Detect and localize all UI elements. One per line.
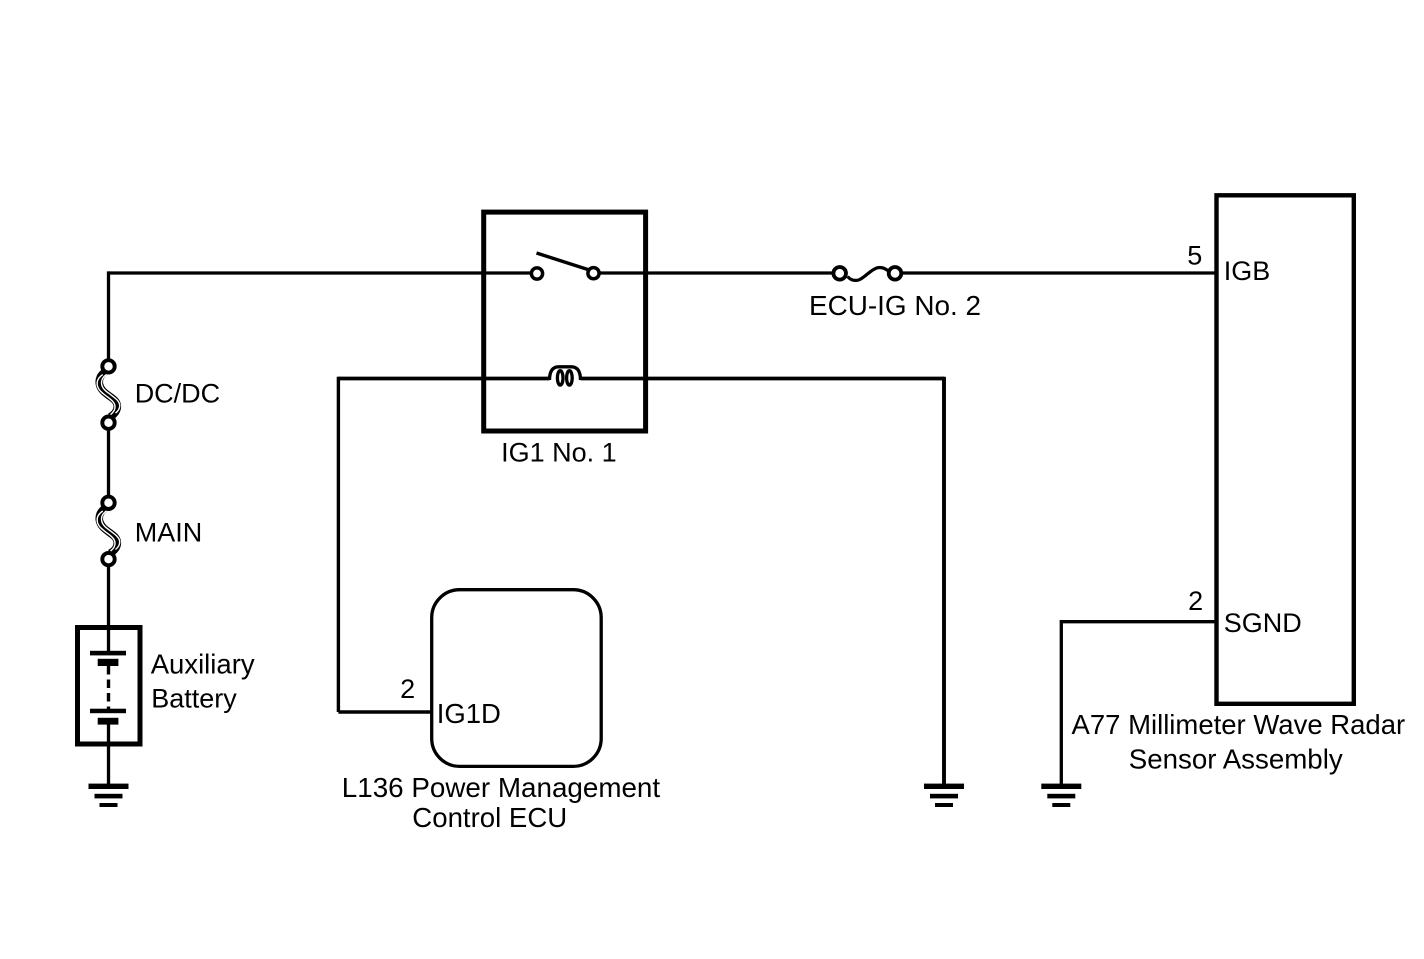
relay switch blade [537, 253, 590, 270]
wire relay coil right segment [581, 377, 945, 381]
wire battery negative to ground [107, 722, 110, 784]
wire fuse ECU-IG No. 2 to pin IGB [902, 271, 1215, 274]
svg-text:IG1D: IG1D [437, 698, 501, 729]
svg-text:2: 2 [1188, 586, 1203, 616]
svg-text:ECU-IG No. 2: ECU-IG No. 2 [809, 290, 981, 321]
svg-text:SGND: SGND [1224, 608, 1302, 638]
svg-text:2: 2 [400, 674, 415, 704]
svg-text:MAIN: MAIN [135, 518, 203, 548]
fusible link MAIN [97, 497, 120, 566]
battery cell 2 negative plate [98, 718, 119, 725]
relay coil loop 1 [557, 371, 563, 385]
wire relay coil left segment [338, 377, 549, 381]
svg-text:A77 Millimeter Wave Radar: A77 Millimeter Wave Radar [1072, 709, 1406, 740]
ground relay coil [924, 784, 964, 807]
wire fusible link MAIN to battery [107, 565, 110, 653]
svg-text:IGB: IGB [1224, 256, 1271, 286]
wire battery feed vertical upper [107, 271, 110, 360]
svg-text:Battery: Battery [151, 683, 237, 713]
svg-text:Control ECU: Control ECU [412, 802, 567, 833]
wire pin SGND to ground vertical [1060, 620, 1063, 784]
svg-text:Auxiliary: Auxiliary [151, 649, 255, 680]
wire vertical down to pin IG1D [337, 377, 340, 712]
relay coil loop 2 [567, 371, 573, 385]
svg-text:Sensor Assembly: Sensor Assembly [1129, 744, 1343, 775]
ground SGND [1041, 784, 1081, 807]
wire between fusible links DC/DC and MAIN [107, 429, 110, 498]
relay contact left [531, 268, 542, 279]
wire horizontal into pin IG1D [338, 710, 431, 713]
svg-text:5: 5 [1187, 241, 1202, 271]
battery cell 2 positive plate [90, 709, 126, 714]
ground battery [89, 784, 129, 807]
battery cell 1 positive plate [90, 651, 126, 656]
fusible link DC/DC [97, 360, 120, 429]
relay IG1 No. 1 box [484, 212, 646, 431]
relay coil arch [550, 367, 581, 380]
wire relay switch to fuse ECU-IG No. 2 [600, 271, 833, 274]
wire battery inter-cell dashed link [107, 666, 110, 709]
radar sensor A77 box [1217, 195, 1354, 704]
fuse ECU-IG No. 2 left terminal [833, 267, 846, 280]
fuse ECU-IG No. 2 element [848, 267, 889, 280]
battery cell 1 negative plate [98, 659, 119, 666]
wire pin SGND horizontal [1061, 620, 1214, 623]
fuse ECU-IG No. 2 right terminal [889, 267, 902, 280]
wire battery feed to relay switch [109, 271, 532, 274]
ECU L136 rounded box [432, 590, 602, 767]
wire relay coil to ground vertical [942, 377, 946, 784]
svg-text:DC/DC: DC/DC [135, 379, 221, 409]
battery box outline [78, 628, 141, 745]
svg-text:IG1 No. 1: IG1 No. 1 [501, 438, 617, 468]
svg-text:L136 Power Management: L136 Power Management [342, 772, 661, 803]
relay contact right [588, 268, 599, 279]
